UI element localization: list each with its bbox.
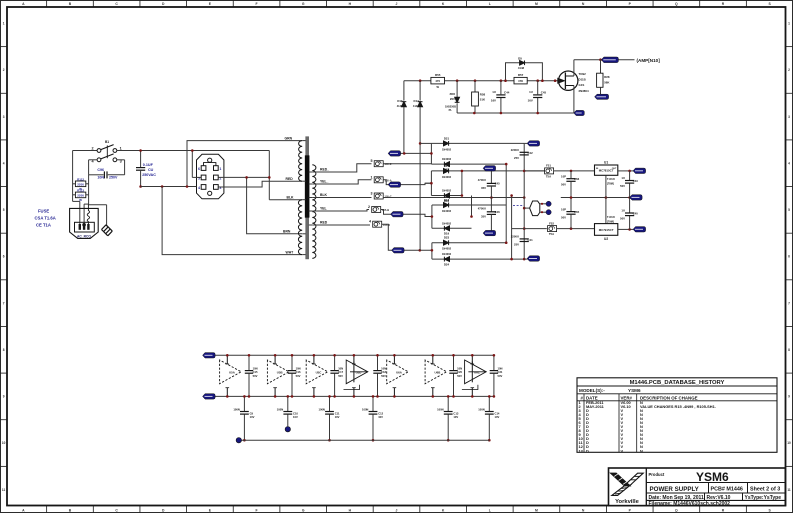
svg-text:M: M: [535, 2, 538, 6]
wire secondary RED: [312, 224, 370, 226]
svg-text:9: 9: [3, 395, 5, 399]
svg-text:TO92: TO92: [579, 72, 587, 76]
svg-text:MC7915CT: MC7915CT: [599, 228, 614, 232]
svg-text:3: 3: [3, 115, 5, 119]
svg-text:DESCRIPTION OF CHANGE: DESCRIPTION OF CHANGE: [640, 395, 698, 400]
label RED_: [320, 168, 329, 172]
fuse F3: [371, 192, 392, 200]
svg-text:1N4002: 1N4002: [442, 189, 452, 193]
svg-text:10N: 10N: [457, 366, 462, 370]
net label flag: [524, 256, 539, 261]
svg-text:100N: 100N: [318, 408, 324, 412]
wire: [383, 180, 431, 185]
diode D5 bypass: [506, 57, 543, 81]
svg-text:D11B: D11B: [579, 78, 586, 82]
svg-text:2: 2: [368, 205, 370, 209]
svg-text:U5B: U5B: [277, 371, 283, 375]
svg-text:[79M]: [79M]: [607, 219, 614, 223]
svg-text:C21: C21: [498, 370, 503, 374]
label YEL: [320, 207, 327, 211]
net label circle: [285, 427, 290, 432]
capacitor C43: [620, 171, 638, 198]
svg-text:4: 4: [788, 161, 790, 165]
svg-text:10V: 10V: [378, 415, 383, 419]
resistor R57: [514, 73, 527, 84]
op-amp U6C: [462, 354, 486, 398]
svg-text:C45: C45: [541, 91, 547, 95]
svg-text:D5: D5: [518, 57, 522, 61]
capacitor C40: [620, 198, 638, 230]
wire: [191, 149, 201, 177]
svg-text:T-OU8: T-OU8: [607, 177, 615, 181]
net label flag: [483, 166, 496, 171]
fuse F4: [369, 220, 390, 228]
wire: [84, 175, 89, 225]
label WHT: [286, 250, 295, 254]
svg-text:D24: D24: [444, 263, 450, 267]
svg-text:R58: R58: [480, 93, 486, 97]
svg-text:F51: F51: [546, 164, 551, 168]
svg-text:U5D: U5D: [356, 371, 362, 375]
wire: [73, 150, 98, 152]
svg-text:C44: C44: [504, 91, 510, 95]
svg-text:50V: 50V: [498, 374, 503, 378]
label RED: [286, 177, 294, 181]
svg-text:D23: D23: [444, 236, 450, 240]
node junction: [500, 79, 503, 82]
wire U1 ground: [605, 175, 607, 223]
svg-text:10V: 10V: [250, 415, 255, 419]
wire GRN loop: [187, 141, 302, 187]
resistor R113: [73, 189, 89, 203]
svg-text:R57: R57: [518, 73, 524, 77]
svg-text:U5C: U5C: [316, 371, 323, 375]
svg-text:V: V: [621, 448, 624, 453]
net label flag: [388, 182, 401, 187]
svg-text:11: 11: [2, 488, 6, 492]
svg-text:1N4002: 1N4002: [442, 147, 452, 151]
svg-text:4700U: 4700U: [478, 207, 486, 211]
svg-text:50V: 50V: [561, 182, 566, 186]
svg-text:50V: 50V: [457, 374, 462, 378]
svg-text:1U: 1U: [621, 208, 625, 212]
net label flag -15V: [203, 394, 216, 399]
svg-text:VALUE CHANGES R15 -4N99 , R105: VALUE CHANGES R15 -4N99 , R105-SH1.: [640, 404, 716, 409]
svg-text:100N: 100N: [478, 408, 484, 412]
svg-text:9: 9: [788, 395, 790, 399]
svg-text:2N3804: 2N3804: [579, 89, 590, 93]
svg-text:C10: C10: [293, 411, 298, 415]
svg-text:4: 4: [3, 161, 5, 165]
svg-text:5: 5: [371, 159, 373, 163]
node junction: [419, 142, 422, 145]
wire: [117, 150, 269, 152]
wire U1 output: [618, 170, 634, 173]
node junction: [504, 79, 544, 82]
label BRN: [283, 230, 291, 234]
capacitor C14: [478, 395, 500, 441]
svg-text:10V: 10V: [293, 415, 298, 419]
svg-text:20V: 20V: [450, 97, 455, 101]
svg-text:35V: 35V: [481, 215, 486, 219]
fuse F52: [512, 221, 595, 236]
svg-text:YSM6: YSM6: [628, 388, 641, 393]
svg-text:C43: C43: [633, 179, 639, 183]
svg-text:U2: U2: [604, 237, 608, 241]
capacitor C66: [561, 171, 580, 198]
wire: [383, 163, 431, 165]
svg-text:L: L: [489, 508, 491, 512]
title block: [609, 468, 786, 507]
svg-text:3: 3: [371, 192, 373, 196]
svg-text:Product: Product: [649, 472, 665, 477]
svg-text:50V: 50V: [381, 374, 386, 378]
diode D14: [413, 81, 423, 251]
wire secondary YEL_: [312, 180, 371, 184]
svg-text:F: F: [256, 2, 258, 6]
svg-text:D18: D18: [444, 198, 450, 202]
svg-text:D17: D17: [444, 164, 450, 168]
wire: [381, 210, 432, 217]
svg-text:C40: C40: [633, 212, 639, 216]
svg-text:C65: C65: [574, 210, 580, 214]
wire source: [573, 86, 575, 114]
capacitor C21: [490, 354, 503, 398]
wire inter-bridge vertical: [470, 196, 473, 218]
svg-text:C15: C15: [253, 370, 258, 374]
transformer T1 secondary winding: [309, 165, 316, 259]
capacitor C12: [362, 395, 384, 441]
svg-text:1U: 1U: [621, 176, 625, 180]
node junction: [456, 79, 459, 82]
fuse F1: [371, 175, 392, 183]
svg-text:T5A: T5A: [549, 232, 554, 236]
svg-text:PL: PL: [449, 108, 453, 112]
svg-text:4148: 4148: [413, 104, 419, 108]
capacitor CU 0.1UF 250VAC: [136, 151, 156, 187]
capacitor C45: [528, 81, 547, 113]
svg-text:AC_RCO: AC_RCO: [77, 234, 91, 238]
net label flag +15V: [633, 168, 646, 173]
svg-text:1: 1: [371, 175, 373, 179]
node junction: [139, 185, 142, 188]
wire: [141, 185, 189, 188]
wire: [268, 151, 270, 200]
svg-text:RED: RED: [320, 221, 328, 225]
svg-text:RED_: RED_: [320, 168, 329, 172]
svg-text:7: 7: [3, 301, 5, 305]
svg-text:7: 7: [788, 301, 790, 305]
svg-text:56K: 56K: [604, 80, 610, 84]
svg-text:Sheet 2 of 3: Sheet 2 of 3: [750, 487, 780, 493]
wire bottom rail: [457, 112, 574, 115]
svg-text:51K: 51K: [480, 98, 486, 102]
switch B1 pole A: [92, 145, 122, 153]
svg-text:FUSE: FUSE: [38, 209, 49, 214]
svg-text:100N: 100N: [362, 408, 368, 412]
svg-text:10N: 10N: [381, 366, 386, 370]
svg-text:1: 1: [120, 146, 122, 150]
svg-text:C18: C18: [381, 370, 386, 374]
fuse F1 squiggle: [87, 204, 89, 224]
label YEL_: [320, 180, 329, 184]
svg-text:D14: D14: [414, 99, 420, 103]
svg-text:35V: 35V: [481, 186, 486, 190]
svg-text:F: F: [256, 508, 258, 512]
svg-text:U1: U1: [604, 161, 608, 165]
svg-text:C13: C13: [453, 411, 458, 415]
node junction: [474, 79, 477, 82]
resistor R112: [73, 177, 89, 191]
svg-text:R112: R112: [77, 177, 84, 181]
svg-text:2: 2: [92, 146, 94, 150]
svg-text:100N: 100N: [437, 408, 443, 412]
svg-text:U5A: U5A: [229, 371, 236, 375]
op-amp U5B: [267, 354, 289, 398]
svg-text:G: G: [302, 508, 305, 512]
svg-text:1N4002: 1N4002: [442, 157, 452, 161]
svg-text:R28: R28: [604, 75, 610, 79]
net label flag: [392, 248, 405, 253]
transformer T1 primary winding 2: [298, 200, 305, 255]
capacitor C9: [233, 395, 254, 441]
fuse F51: [524, 164, 594, 179]
net label circle AGND: [236, 438, 241, 443]
net label flag -15V: [633, 227, 646, 232]
svg-text:(AMP[N10]: (AMP[N10]: [637, 58, 661, 63]
svg-text:C17: C17: [338, 370, 343, 374]
wire to BRN: [245, 176, 302, 234]
svg-text:D13: D13: [397, 99, 403, 103]
svg-text:50V: 50V: [253, 374, 258, 378]
svg-text:10N: 10N: [97, 176, 104, 180]
svg-text:25V: 25V: [514, 243, 519, 247]
svg-text:WHT: WHT: [286, 250, 295, 254]
wire mid rail right: [561, 196, 631, 199]
svg-text:2: 2: [788, 68, 790, 72]
svg-text:16V: 16V: [528, 98, 533, 102]
svg-text:U6B: U6B: [435, 371, 441, 375]
svg-text:1N4002: 1N4002: [442, 209, 452, 213]
op-amp U5C: [306, 354, 328, 398]
svg-text:Filename: M1446V610sch.sch2002: Filename: M1446V610sch.sch2002: [649, 501, 731, 507]
net label flag: [391, 212, 404, 217]
svg-text:4700U: 4700U: [478, 178, 486, 182]
svg-text:BRN: BRN: [283, 230, 291, 234]
svg-text:25V: 25V: [514, 156, 519, 160]
transistor Q1 MOSFET: [554, 71, 589, 93]
capacitor C11: [318, 395, 340, 441]
svg-text:Q: Q: [675, 508, 678, 512]
svg-text:4148: 4148: [518, 66, 525, 70]
svg-text:5: 5: [3, 208, 5, 212]
svg-text:C12: C12: [378, 411, 383, 415]
wire -15V rail: [214, 395, 494, 397]
svg-text:6: 6: [788, 255, 790, 259]
resistor R58: [472, 81, 486, 113]
svg-text:C20: C20: [457, 370, 462, 374]
resistor R28: [597, 60, 611, 94]
wire: [382, 224, 432, 251]
wire: [218, 176, 270, 179]
wire to WHT: [162, 187, 302, 255]
capacitor C17: [330, 354, 343, 398]
wire +15V rail: [214, 354, 494, 356]
table M1446.PCB_DATABASE_HISTORY: [577, 378, 777, 453]
svg-text:10V: 10V: [453, 415, 458, 419]
svg-text:250V: 250V: [109, 176, 118, 180]
capacitor C65: [561, 198, 580, 229]
svg-text:50V: 50V: [620, 184, 625, 188]
label AMP N10: [637, 58, 661, 63]
svg-text:1N4002: 1N4002: [442, 221, 452, 225]
svg-text:0.1UF: 0.1UF: [143, 163, 154, 167]
svg-text:4: 4: [369, 220, 371, 224]
svg-text:10N: 10N: [498, 366, 503, 370]
svg-text:[78M]: [78M]: [607, 182, 614, 186]
svg-text:50V: 50V: [561, 215, 566, 219]
svg-text:10N: 10N: [296, 366, 301, 370]
wire AC bus vertical: [505, 163, 508, 244]
svg-text:T-OU8: T-OU8: [607, 215, 615, 219]
capacitor C96: [89, 160, 125, 180]
capacitor C42: [511, 148, 533, 160]
svg-text:C41: C41: [528, 238, 534, 242]
connector AC_RCO: [70, 208, 99, 238]
svg-text:C66: C66: [574, 177, 580, 181]
capacitor C18: [373, 354, 386, 398]
svg-text:C46: C46: [495, 210, 501, 214]
zener ZD6: [445, 81, 459, 113]
svg-text:10P: 10P: [561, 207, 566, 211]
svg-text:2200: 2200: [77, 183, 84, 187]
capacitor C41: [511, 235, 533, 247]
svg-text:N: N: [640, 448, 643, 453]
switch B1 pole B: [92, 154, 122, 164]
svg-text:C11: C11: [335, 411, 340, 415]
svg-text:2200U: 2200U: [511, 148, 519, 152]
svg-text:W: W: [79, 198, 82, 202]
svg-text:CSA T1.6A: CSA T1.6A: [35, 216, 56, 221]
transformer T1 primary winding 1: [299, 141, 306, 182]
svg-text:M: M: [535, 508, 538, 512]
wire AC bus vertical: [510, 194, 513, 260]
wire mid rail long: [383, 196, 525, 199]
svg-text:250VAC: 250VAC: [142, 173, 156, 177]
wire positive rail vertical: [523, 143, 526, 260]
svg-text:2: 2: [3, 68, 5, 72]
svg-text:2200: 2200: [77, 194, 84, 198]
net label flag: [388, 151, 405, 156]
net label flag: [524, 141, 539, 146]
wire: [89, 159, 98, 161]
svg-text:10: 10: [2, 441, 6, 445]
capacitor C15: [245, 354, 258, 398]
connector voltage selector: [197, 154, 224, 199]
svg-text:10N: 10N: [338, 366, 343, 370]
svg-text:10: 10: [787, 441, 791, 445]
svg-text:ZD6: ZD6: [450, 92, 456, 96]
svg-text:6: 6: [3, 255, 5, 259]
fuse F5: [371, 159, 392, 167]
svg-text:YSM6: YSM6: [696, 470, 729, 484]
svg-text:T5A: T5A: [546, 174, 551, 178]
wire: [420, 142, 431, 144]
rectifier D17 D16: [425, 164, 545, 203]
net label flag GND: [574, 110, 585, 115]
svg-text:1: 1: [788, 22, 790, 26]
svg-text:1: 1: [3, 22, 5, 26]
svg-text:47K: 47K: [518, 79, 523, 83]
wire: [117, 160, 125, 175]
svg-text:J: J: [396, 508, 398, 512]
svg-text:J: J: [396, 2, 398, 6]
rectifier D21 D22: [399, 136, 525, 171]
svg-text:R113: R113: [77, 189, 84, 193]
transformer T1 core: [305, 137, 309, 259]
svg-text:6: 6: [198, 167, 200, 171]
wire RED primary: [218, 181, 302, 187]
net label flag: [483, 230, 496, 235]
svg-text:1U: 1U: [492, 90, 496, 94]
chassis ground: [89, 205, 113, 236]
svg-text:1: 1: [219, 167, 221, 171]
svg-text:16V: 16V: [491, 98, 496, 102]
regulator U2 MC7915CT: [595, 215, 618, 241]
svg-text:50V: 50V: [296, 374, 301, 378]
svg-text:D: D: [586, 448, 589, 453]
svg-text:GRN: GRN: [285, 136, 293, 140]
svg-text:M1446.PCB_DATABASE_HISTORY: M1446.PCB_DATABASE_HISTORY: [630, 380, 725, 386]
svg-text:50V: 50V: [620, 217, 625, 221]
label BLK: [320, 193, 328, 197]
svg-text:POWER SUPPLY: POWER SUPPLY: [650, 486, 700, 493]
capacitor C20: [449, 354, 462, 398]
node junction: [139, 149, 142, 152]
svg-text:10V: 10V: [495, 415, 500, 419]
wire top rail: [404, 80, 558, 82]
label FUSE ratings: [35, 209, 56, 228]
wire drain: [574, 58, 635, 76]
svg-text:RED: RED: [286, 177, 294, 181]
capacitor C45 bulk: [478, 168, 500, 197]
svg-text:D21: D21: [444, 136, 450, 140]
capacitor C44: [491, 81, 510, 113]
fuse F2: [368, 205, 389, 213]
svg-text:CE T1A: CE T1A: [36, 223, 51, 228]
svg-text:Q: Q: [675, 2, 678, 6]
svg-text:U6A: U6A: [396, 371, 403, 375]
wire U2 output: [618, 228, 634, 231]
op-amp U5D: [344, 354, 368, 398]
svg-text:C16: C16: [296, 370, 301, 374]
svg-text:C96: C96: [97, 168, 104, 172]
capacitor C10: [277, 395, 299, 426]
svg-text:5: 5: [788, 208, 790, 212]
svg-text:105-D: 105-D: [383, 223, 390, 227]
svg-text:YEL: YEL: [320, 207, 327, 211]
svg-text:1U: 1U: [529, 90, 533, 94]
svg-text:4: 4: [198, 186, 200, 190]
svg-text:B1: B1: [105, 140, 109, 144]
svg-text:C42: C42: [528, 151, 534, 155]
svg-text:10V: 10V: [335, 415, 340, 419]
svg-text:1N5250B: 1N5250B: [445, 104, 456, 108]
svg-text:4148: 4148: [397, 104, 403, 108]
wire ground rail: [242, 439, 490, 441]
label GRN: [285, 136, 293, 140]
net label flag +15V: [203, 353, 216, 358]
